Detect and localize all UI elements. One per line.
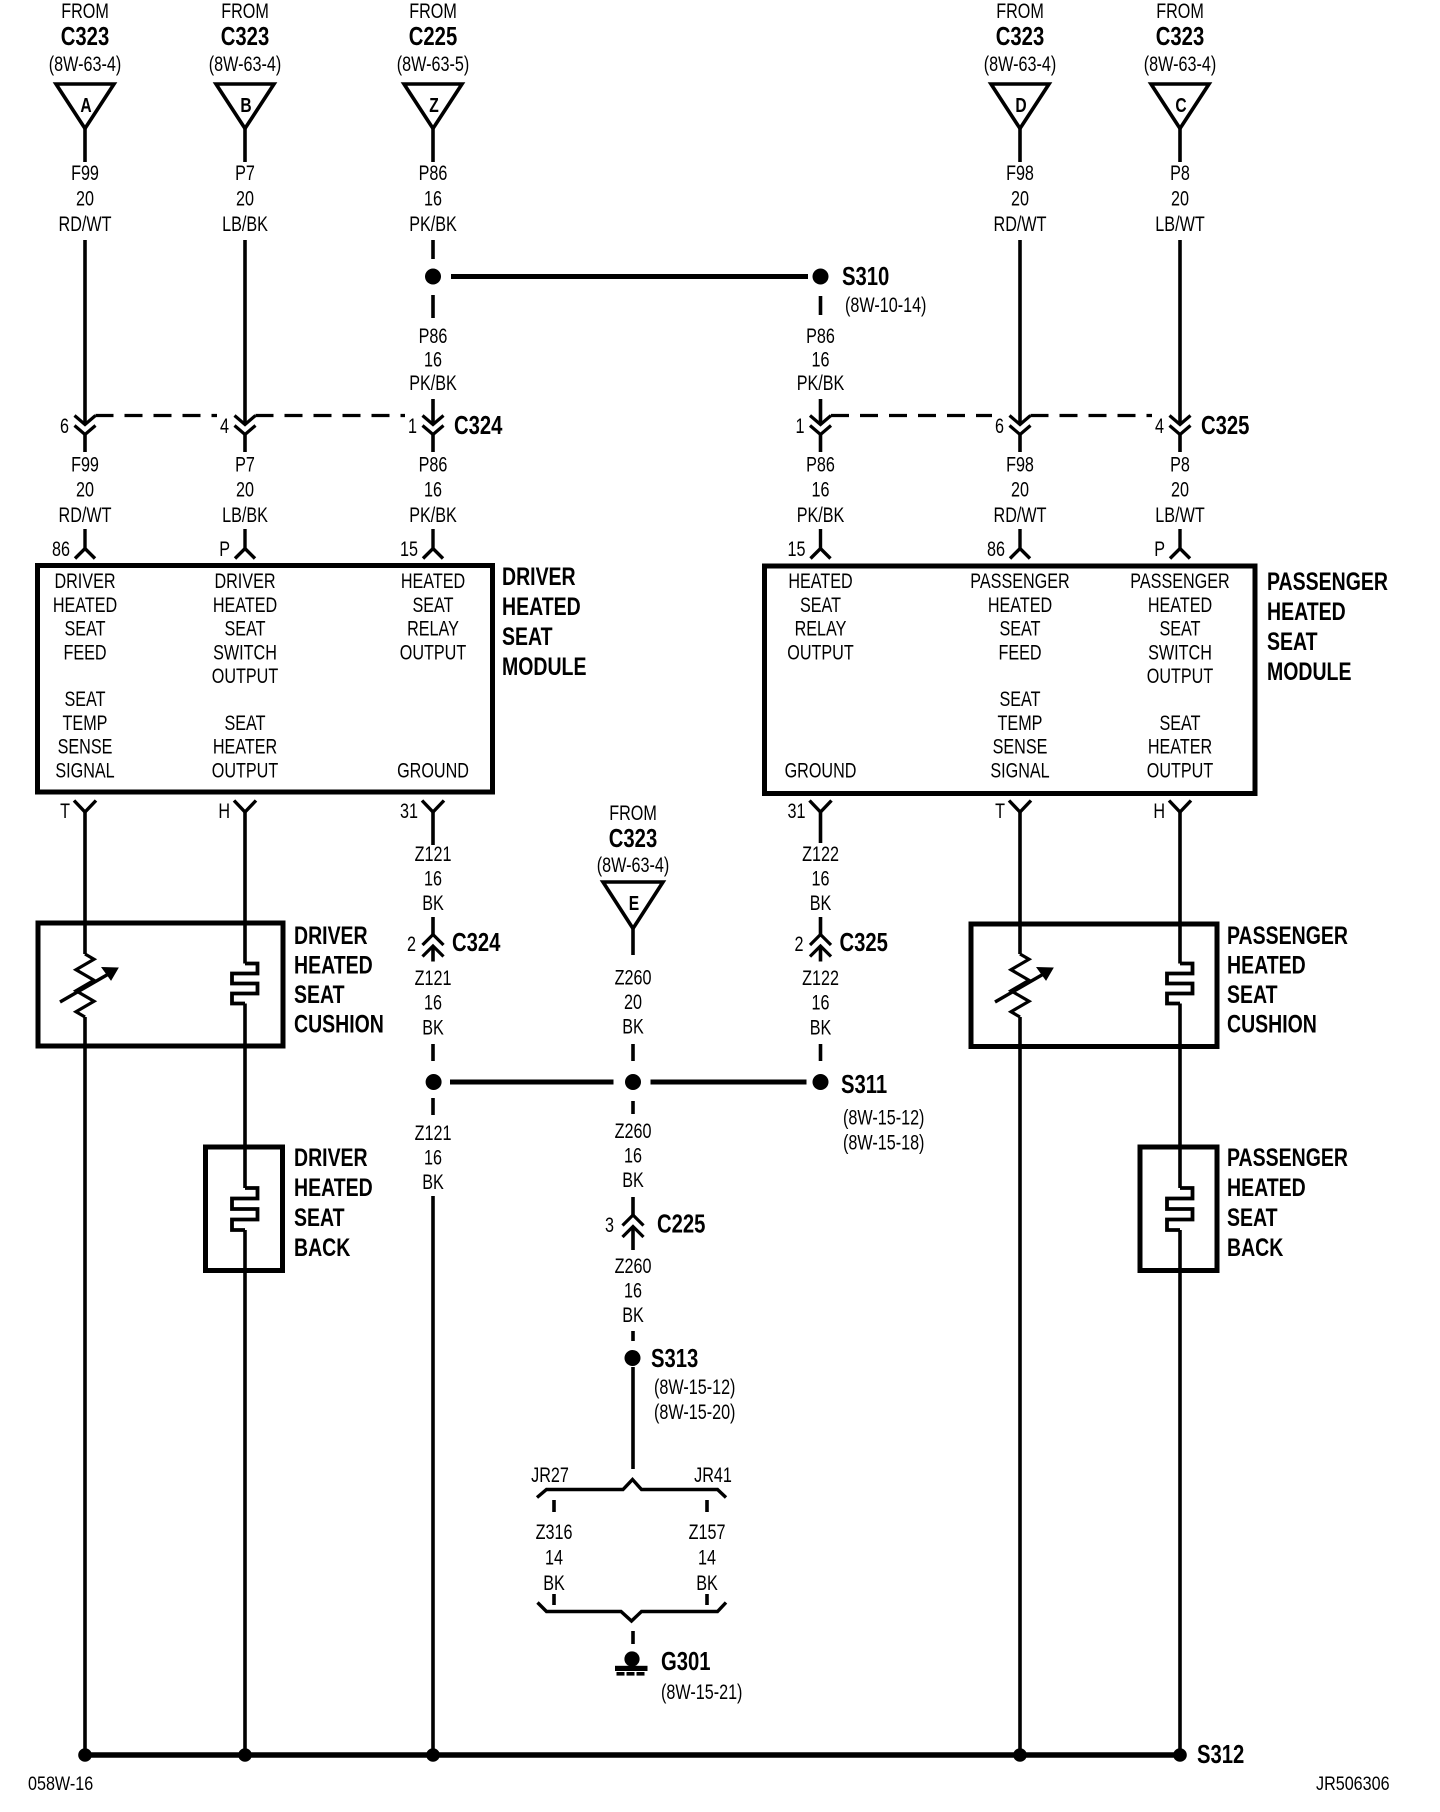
svg-text:SEAT: SEAT bbox=[294, 981, 345, 1009]
wire above C225 pin 3 bbox=[631, 1197, 635, 1215]
svg-text:BK: BK bbox=[622, 1303, 644, 1327]
svg-text:(8W-15-12): (8W-15-12) bbox=[654, 1375, 735, 1399]
svg-text:S311: S311 bbox=[841, 1070, 887, 1099]
svg-text:PASSENGER: PASSENGER bbox=[970, 569, 1069, 593]
wire label F99 20 RD/WT bbox=[59, 452, 112, 526]
wire dash JR27 bbox=[552, 1500, 556, 1512]
svg-text:T: T bbox=[995, 799, 1005, 823]
svg-text:PASSENGER: PASSENGER bbox=[1130, 569, 1229, 593]
wire below triangle E bbox=[631, 929, 635, 956]
svg-text:LB/WT: LB/WT bbox=[1155, 212, 1205, 236]
svg-text:BK: BK bbox=[696, 1571, 718, 1595]
driver heated seat back box bbox=[206, 1147, 283, 1271]
svg-text:PASSENGER: PASSENGER bbox=[1227, 922, 1348, 950]
svg-text:(8W-15-21): (8W-15-21) bbox=[661, 1680, 742, 1704]
wire label F98 20 RD/WT bbox=[994, 161, 1047, 236]
splice S310 label bbox=[842, 262, 926, 317]
in-line connector C325 dashed line bbox=[831, 414, 1152, 417]
svg-text:FROM: FROM bbox=[996, 0, 1044, 22]
svg-text:P: P bbox=[1154, 537, 1165, 561]
svg-text:A: A bbox=[80, 94, 91, 116]
svg-text:RD/WT: RD/WT bbox=[994, 212, 1047, 236]
wire 31 stem passenger bbox=[819, 812, 823, 843]
svg-text:P86: P86 bbox=[419, 161, 448, 185]
module pin H bbox=[234, 801, 256, 813]
connector label C325 (pin 2) bbox=[840, 928, 888, 957]
wire dash below Z316 bbox=[552, 1594, 556, 1605]
svg-text:1: 1 bbox=[408, 414, 417, 438]
svg-text:1: 1 bbox=[796, 414, 805, 438]
svg-text:P7: P7 bbox=[235, 452, 255, 476]
svg-text:BK: BK bbox=[810, 1015, 832, 1039]
wire label F99 20 RD/WT bbox=[59, 161, 112, 236]
svg-text:P86: P86 bbox=[419, 324, 448, 348]
svg-text:MODULE: MODULE bbox=[1267, 658, 1351, 686]
svg-text:HEATED: HEATED bbox=[1267, 598, 1346, 626]
svg-text:HEATED: HEATED bbox=[1227, 1174, 1306, 1202]
wire dash below S310 right bbox=[819, 296, 823, 315]
svg-text:Z121: Z121 bbox=[415, 966, 452, 990]
driver seat back label bbox=[294, 1144, 373, 1262]
svg-text:20: 20 bbox=[1171, 478, 1189, 502]
svg-text:86: 86 bbox=[52, 537, 70, 561]
svg-text:SEAT: SEAT bbox=[502, 623, 553, 651]
svg-text:RELAY: RELAY bbox=[407, 617, 459, 641]
wire label Z157 14 BK bbox=[689, 1520, 726, 1595]
wire label P86 16 PK/BK bbox=[409, 161, 457, 236]
svg-text:LB/WT: LB/WT bbox=[1155, 503, 1205, 527]
wire dash above S311 (E column) bbox=[631, 1044, 635, 1061]
svg-text:C225: C225 bbox=[657, 1209, 705, 1238]
brace joining to ground bbox=[538, 1603, 727, 1622]
svg-text:BK: BK bbox=[622, 1014, 644, 1038]
wire label Z122 16 BK bbox=[802, 842, 839, 915]
svg-text:D: D bbox=[1015, 94, 1026, 116]
svg-text:SWITCH: SWITCH bbox=[1148, 640, 1212, 664]
svg-text:LB/BK: LB/BK bbox=[222, 212, 268, 236]
wire dash below S311 (E column) bbox=[631, 1101, 635, 1114]
svg-text:RELAY: RELAY bbox=[795, 617, 847, 641]
wire bbox=[83, 240, 87, 425]
module pin 86 bbox=[75, 529, 95, 559]
wire label Z121 16 BK bbox=[415, 966, 452, 1039]
module pin 15 bbox=[811, 529, 831, 559]
svg-text:OUTPUT: OUTPUT bbox=[1147, 758, 1214, 782]
svg-text:P7: P7 bbox=[235, 161, 255, 185]
in-line connector C225 pin 3 bbox=[623, 1215, 644, 1237]
svg-text:HEATED: HEATED bbox=[294, 951, 373, 979]
svg-text:058W-16: 058W-16 bbox=[28, 1773, 93, 1795]
svg-text:SEAT: SEAT bbox=[800, 593, 841, 617]
wire bbox=[83, 435, 87, 453]
heater element passenger seat cushion bbox=[1167, 964, 1193, 1004]
svg-text:16: 16 bbox=[812, 478, 830, 502]
connector triangle C (from C323) bbox=[1144, 0, 1216, 128]
svg-text:C324: C324 bbox=[454, 411, 502, 440]
svg-text:FEED: FEED bbox=[998, 640, 1041, 664]
svg-text:RD/WT: RD/WT bbox=[994, 503, 1047, 527]
svg-text:CUSHION: CUSHION bbox=[1227, 1010, 1317, 1038]
wire label F98 20 RD/WT bbox=[994, 452, 1047, 526]
svg-text:16: 16 bbox=[812, 991, 830, 1015]
wire label Z316 14 BK bbox=[536, 1520, 573, 1595]
svg-text:PASSENGER: PASSENGER bbox=[1267, 568, 1388, 596]
svg-text:S310: S310 bbox=[842, 262, 889, 291]
svg-text:16: 16 bbox=[424, 347, 442, 371]
wire dash above C324 pin 1 bbox=[431, 399, 435, 425]
brace splitting to JR27 and JR41 bbox=[537, 1480, 726, 1498]
svg-text:Z260: Z260 bbox=[615, 965, 652, 989]
svg-text:P86: P86 bbox=[806, 324, 835, 348]
wire label P86 16 PK/BK (Z column) bbox=[409, 324, 457, 395]
wire dash above S311 bbox=[431, 1044, 435, 1061]
in-line connector C325 pin 2 bbox=[810, 935, 831, 957]
driver module pin function labels bbox=[53, 569, 469, 782]
svg-text:C323: C323 bbox=[221, 22, 269, 51]
svg-text:GROUND: GROUND bbox=[397, 758, 469, 782]
passenger seat back label bbox=[1227, 1144, 1348, 1262]
svg-text:P8: P8 bbox=[1170, 452, 1190, 476]
svg-text:JR506306: JR506306 bbox=[1316, 1773, 1390, 1795]
passenger cushion label bbox=[1227, 922, 1348, 1038]
svg-text:DRIVER: DRIVER bbox=[294, 922, 368, 950]
svg-text:SEAT: SEAT bbox=[999, 617, 1040, 641]
module pin T bbox=[74, 801, 96, 813]
splice S311 label bbox=[841, 1070, 924, 1154]
driver heated seat cushion box bbox=[38, 923, 283, 1046]
svg-text:F98: F98 bbox=[1006, 161, 1034, 185]
svg-text:FROM: FROM bbox=[61, 0, 109, 22]
svg-text:C: C bbox=[1175, 94, 1186, 116]
wire dash above C325 pin 1 bbox=[819, 399, 823, 425]
svg-text:C225: C225 bbox=[409, 22, 457, 51]
svg-text:PK/BK: PK/BK bbox=[797, 503, 845, 527]
wire label Z121 16 BK bbox=[415, 842, 452, 915]
connector triangle Z (from C225) bbox=[397, 0, 469, 128]
wire below C324 pin 2 bbox=[431, 946, 435, 962]
splice S310 bus wire bbox=[425, 269, 829, 285]
svg-text:C323: C323 bbox=[1156, 22, 1204, 51]
wire bbox=[1018, 240, 1022, 425]
wire label P86 16 PK/BK (passenger column) bbox=[797, 324, 845, 395]
wire below triangle B bbox=[243, 129, 247, 163]
svg-text:16: 16 bbox=[424, 866, 442, 890]
svg-text:OUTPUT: OUTPUT bbox=[1147, 664, 1214, 688]
in-line connector C325 pin 1 bbox=[810, 416, 831, 435]
svg-text:S313: S313 bbox=[651, 1344, 698, 1373]
sheet number 058W-16 bbox=[28, 1773, 93, 1795]
svg-text:SENSE: SENSE bbox=[58, 735, 113, 759]
svg-text:DRIVER: DRIVER bbox=[54, 569, 115, 593]
wire bbox=[243, 435, 247, 453]
svg-text:BK: BK bbox=[543, 1571, 565, 1595]
thermistor driver seat temp sensor bbox=[60, 954, 118, 1017]
wire H down to passenger cushion heater bbox=[1178, 812, 1182, 964]
svg-text:2: 2 bbox=[795, 932, 804, 956]
wire below passenger seat back heater bbox=[1178, 1230, 1182, 1755]
svg-text:16: 16 bbox=[424, 478, 442, 502]
connector label C324 bbox=[454, 411, 502, 440]
svg-text:RD/WT: RD/WT bbox=[59, 212, 112, 236]
svg-text:C323: C323 bbox=[61, 22, 109, 51]
wire below triangle A bbox=[83, 129, 87, 163]
wire bbox=[1018, 435, 1022, 453]
module pin 15 bbox=[423, 529, 443, 559]
connector label C225 (pin 3) bbox=[657, 1209, 705, 1238]
svg-text:BK: BK bbox=[422, 1170, 444, 1194]
svg-text:SEAT: SEAT bbox=[1159, 711, 1200, 735]
connector triangle E (from C323) bbox=[597, 801, 669, 929]
module pin 31 bbox=[810, 801, 832, 813]
svg-text:E: E bbox=[629, 892, 639, 914]
label JR27 bbox=[531, 1463, 569, 1487]
svg-text:H: H bbox=[1153, 799, 1165, 823]
svg-text:SEAT: SEAT bbox=[1227, 981, 1278, 1009]
wire bbox=[1178, 435, 1182, 453]
svg-text:20: 20 bbox=[76, 478, 94, 502]
driver heated seat module box bbox=[38, 566, 493, 793]
svg-text:F98: F98 bbox=[1006, 452, 1034, 476]
svg-text:(8W-63-4): (8W-63-4) bbox=[49, 52, 121, 76]
svg-text:20: 20 bbox=[1011, 186, 1029, 210]
in-line connector C325 pin 4 bbox=[1170, 416, 1191, 435]
svg-text:OUTPUT: OUTPUT bbox=[212, 664, 279, 688]
svg-text:HEATED: HEATED bbox=[53, 593, 117, 617]
svg-text:16: 16 bbox=[424, 186, 442, 210]
passenger heated seat module box bbox=[765, 566, 1256, 794]
wire below triangle Z bbox=[431, 129, 435, 163]
wire below driver cushion heater bbox=[243, 1004, 247, 1189]
svg-text:TEMP: TEMP bbox=[63, 711, 108, 735]
wire label P7 20 LB/BK bbox=[222, 452, 268, 526]
svg-text:3: 3 bbox=[605, 1213, 614, 1237]
svg-text:JR41: JR41 bbox=[694, 1463, 732, 1487]
svg-text:F99: F99 bbox=[71, 161, 99, 185]
svg-text:Z121: Z121 bbox=[415, 1121, 452, 1145]
svg-text:20: 20 bbox=[236, 478, 254, 502]
in-line connector C324 pin 2 bbox=[423, 935, 444, 957]
svg-text:BACK: BACK bbox=[294, 1234, 350, 1262]
svg-text:C323: C323 bbox=[996, 22, 1044, 51]
wire below triangle C bbox=[1178, 129, 1182, 163]
svg-text:BACK: BACK bbox=[1227, 1234, 1283, 1262]
svg-text:Z157: Z157 bbox=[689, 1520, 726, 1544]
svg-text:JR27: JR27 bbox=[531, 1463, 569, 1487]
svg-text:6: 6 bbox=[60, 414, 69, 438]
wire label P86 16 PK/BK bbox=[797, 452, 845, 526]
svg-text:(8W-15-20): (8W-15-20) bbox=[654, 1400, 735, 1424]
svg-text:SEAT: SEAT bbox=[412, 593, 453, 617]
svg-text:FEED: FEED bbox=[63, 640, 106, 664]
svg-text:C325: C325 bbox=[840, 928, 888, 957]
svg-text:OUTPUT: OUTPUT bbox=[212, 758, 279, 782]
module pin P bbox=[235, 529, 255, 559]
svg-text:20: 20 bbox=[236, 186, 254, 210]
svg-text:SEAT: SEAT bbox=[64, 687, 105, 711]
svg-text:16: 16 bbox=[424, 991, 442, 1015]
splice S312 bus wire bbox=[78, 1748, 1187, 1762]
wire below C225 pin 3 bbox=[631, 1227, 635, 1250]
svg-text:C325: C325 bbox=[1201, 411, 1249, 440]
wire label Z260 16 BK bbox=[615, 1119, 652, 1192]
svg-text:(8W-63-4): (8W-63-4) bbox=[597, 853, 669, 877]
heater element driver seat cushion bbox=[232, 964, 258, 1004]
svg-text:HEATED: HEATED bbox=[988, 593, 1052, 617]
svg-text:31: 31 bbox=[788, 799, 806, 823]
svg-text:14: 14 bbox=[698, 1545, 716, 1569]
wire label P8 20 LB/WT bbox=[1155, 452, 1205, 526]
splice S311 bus wire bbox=[426, 1074, 829, 1090]
svg-text:SEAT: SEAT bbox=[1267, 628, 1318, 656]
svg-text:(8W-63-4): (8W-63-4) bbox=[984, 52, 1056, 76]
wire bbox=[819, 435, 823, 453]
svg-text:PK/BK: PK/BK bbox=[409, 503, 457, 527]
svg-text:G301: G301 bbox=[661, 1647, 711, 1676]
svg-text:SEAT: SEAT bbox=[294, 1204, 345, 1232]
svg-text:BK: BK bbox=[422, 1015, 444, 1039]
svg-text:BK: BK bbox=[422, 891, 444, 915]
wire bbox=[431, 435, 435, 453]
svg-text:SIGNAL: SIGNAL bbox=[55, 758, 114, 782]
wire below driver thermistor bbox=[83, 1017, 87, 1755]
wire bbox=[243, 240, 247, 425]
wire dash above S310 bbox=[431, 240, 435, 259]
splice S312 label bbox=[1197, 1740, 1244, 1769]
svg-text:FROM: FROM bbox=[1156, 0, 1204, 22]
svg-text:BK: BK bbox=[622, 1168, 644, 1192]
in-line connector C325 pin 6 bbox=[1010, 416, 1031, 435]
wire Z121 to S312 bbox=[431, 1196, 435, 1755]
svg-text:P: P bbox=[219, 537, 230, 561]
thermistor passenger seat temp sensor bbox=[995, 954, 1053, 1017]
svg-text:TEMP: TEMP bbox=[998, 711, 1043, 735]
svg-text:BK: BK bbox=[810, 891, 832, 915]
wire 31 stem bbox=[431, 812, 435, 845]
wire above C324 pin 2 bbox=[431, 917, 435, 935]
connector triangle A (from C323) bbox=[49, 0, 121, 128]
heater element passenger seat back bbox=[1167, 1188, 1193, 1230]
in-line connector C324 dashed line bbox=[96, 414, 406, 417]
svg-text:LB/BK: LB/BK bbox=[222, 503, 268, 527]
svg-text:16: 16 bbox=[812, 347, 830, 371]
svg-text:20: 20 bbox=[1011, 478, 1029, 502]
svg-text:16: 16 bbox=[624, 1278, 642, 1302]
splice S313 label bbox=[651, 1344, 735, 1424]
svg-text:DRIVER: DRIVER bbox=[214, 569, 275, 593]
svg-text:HEATED: HEATED bbox=[502, 593, 581, 621]
svg-text:6: 6 bbox=[995, 414, 1004, 438]
svg-text:4: 4 bbox=[220, 414, 229, 438]
label JR41 bbox=[694, 1463, 732, 1487]
svg-text:SWITCH: SWITCH bbox=[213, 640, 277, 664]
passenger module pin function labels bbox=[785, 569, 1230, 782]
svg-text:15: 15 bbox=[400, 537, 418, 561]
wire below passenger cushion heater bbox=[1178, 1004, 1182, 1189]
wire label Z121 16 BK bbox=[415, 1121, 452, 1194]
wire below S313 bbox=[631, 1367, 635, 1469]
svg-text:DRIVER: DRIVER bbox=[294, 1144, 368, 1172]
connector triangle D (from C323) bbox=[984, 0, 1056, 128]
svg-text:DRIVER: DRIVER bbox=[502, 563, 576, 591]
module pin H bbox=[1169, 801, 1191, 813]
connector triangle B (from C323) bbox=[209, 0, 281, 128]
ground G301 label bbox=[661, 1647, 742, 1704]
wire H down to cushion heater bbox=[243, 812, 247, 964]
driver module title bbox=[502, 563, 586, 681]
svg-text:SEAT: SEAT bbox=[999, 687, 1040, 711]
module pin 31 bbox=[422, 801, 444, 813]
svg-text:SEAT: SEAT bbox=[1227, 1204, 1278, 1232]
drawing number JR506306 bbox=[1316, 1773, 1390, 1795]
svg-text:(8W-15-18): (8W-15-18) bbox=[843, 1130, 924, 1154]
wire label Z122 16 BK bbox=[802, 966, 839, 1039]
wire below C325 pin 2 bbox=[819, 946, 823, 962]
svg-text:(8W-63-4): (8W-63-4) bbox=[209, 52, 281, 76]
svg-text:20: 20 bbox=[76, 186, 94, 210]
svg-text:HEATED: HEATED bbox=[1148, 593, 1212, 617]
svg-text:Z121: Z121 bbox=[415, 842, 452, 866]
svg-text:SIGNAL: SIGNAL bbox=[990, 758, 1049, 782]
svg-text:(8W-15-12): (8W-15-12) bbox=[843, 1105, 924, 1129]
svg-text:20: 20 bbox=[1171, 186, 1189, 210]
wire dash above S311 (passenger) bbox=[819, 1044, 823, 1061]
svg-text:C324: C324 bbox=[452, 928, 500, 957]
wire dash above G301 bbox=[631, 1631, 635, 1644]
svg-text:Z316: Z316 bbox=[536, 1520, 573, 1544]
passenger heated seat cushion box bbox=[971, 924, 1217, 1047]
svg-text:SEAT: SEAT bbox=[224, 711, 265, 735]
wire below passenger thermistor bbox=[1018, 1017, 1022, 1755]
svg-text:PASSENGER: PASSENGER bbox=[1227, 1144, 1348, 1172]
svg-text:T: T bbox=[60, 799, 70, 823]
module pin 86 bbox=[1010, 529, 1030, 559]
wire label P8 20 LB/WT bbox=[1155, 161, 1205, 236]
wire below triangle D bbox=[1018, 129, 1022, 163]
in-line connector C324 pin 4 bbox=[235, 416, 256, 435]
module pin T bbox=[1009, 801, 1031, 813]
heater element driver seat back bbox=[232, 1188, 258, 1230]
driver cushion label bbox=[294, 922, 384, 1038]
svg-text:4: 4 bbox=[1155, 414, 1164, 438]
svg-text:PK/BK: PK/BK bbox=[409, 371, 457, 395]
wire above C325 pin 2 bbox=[819, 917, 823, 935]
svg-text:HEATER: HEATER bbox=[1148, 735, 1212, 759]
svg-text:20: 20 bbox=[624, 990, 642, 1014]
wire below driver seat back heater bbox=[243, 1230, 247, 1755]
wire dash below S311 (Z column) bbox=[431, 1098, 435, 1115]
passenger heated seat back box bbox=[1140, 1147, 1217, 1271]
passenger module title bbox=[1267, 568, 1388, 686]
svg-text:15: 15 bbox=[788, 537, 806, 561]
svg-text:SEAT: SEAT bbox=[64, 617, 105, 641]
svg-text:31: 31 bbox=[400, 799, 418, 823]
svg-text:GROUND: GROUND bbox=[785, 758, 857, 782]
in-line connector C324 pin 1 bbox=[423, 416, 444, 435]
wire dash JR41 bbox=[705, 1500, 709, 1512]
wire label P86 16 PK/BK bbox=[409, 452, 457, 526]
svg-text:RD/WT: RD/WT bbox=[59, 503, 112, 527]
svg-text:P86: P86 bbox=[419, 452, 448, 476]
svg-text:Z260: Z260 bbox=[615, 1119, 652, 1143]
svg-text:CUSHION: CUSHION bbox=[294, 1010, 384, 1038]
svg-text:16: 16 bbox=[812, 866, 830, 890]
svg-text:MODULE: MODULE bbox=[502, 653, 586, 681]
svg-text:86: 86 bbox=[987, 537, 1005, 561]
svg-text:SENSE: SENSE bbox=[993, 735, 1048, 759]
svg-text:PK/BK: PK/BK bbox=[797, 371, 845, 395]
wire label Z260 16 BK bbox=[615, 1254, 652, 1327]
svg-text:16: 16 bbox=[424, 1145, 442, 1169]
